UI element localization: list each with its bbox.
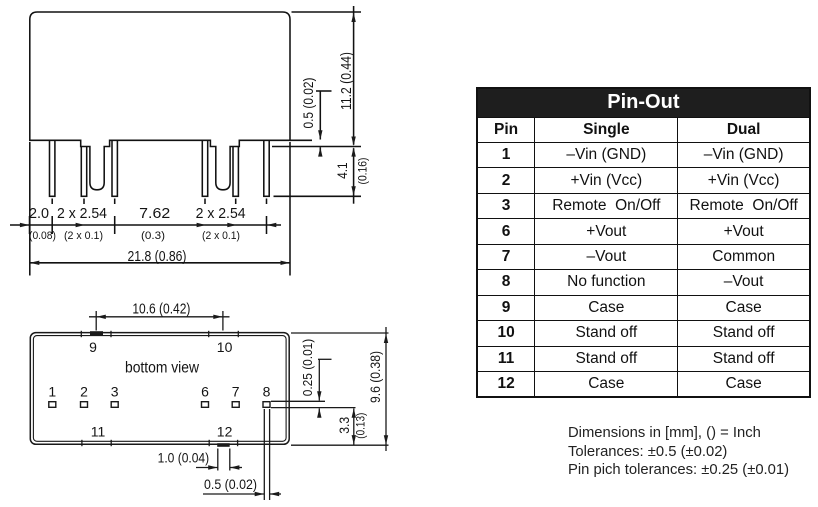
svg-text:11: 11 [91, 424, 106, 440]
pin 8 (side view) [264, 138, 269, 196]
pin 9 stand-off tab (filled) [90, 331, 103, 335]
dimension 0.5 (0.02) leader [316, 90, 332, 92]
extension line: body bottom level (right) [290, 139, 312, 141]
pin8 pad vertical extension lines [263, 409, 265, 500]
svg-text:7: 7 [232, 384, 240, 400]
extension line: body top to right [292, 11, 362, 13]
svg-text:2 x 2.54: 2 x 2.54 [196, 206, 246, 222]
svg-text:(2 x 0.1): (2 x 0.1) [202, 230, 240, 242]
body edge extension lines down [29, 142, 31, 276]
extension dashes below pins [51, 199, 53, 205]
svg-text:10.6 (0.42): 10.6 (0.42) [132, 302, 190, 318]
pin pad 6 [202, 402, 209, 408]
pin pad 7 [232, 402, 239, 408]
arrow at pin6 center [197, 223, 206, 227]
tick pin3 center [114, 216, 116, 234]
pin 7 (side view) [233, 144, 238, 196]
svg-text:12: 12 [217, 424, 233, 440]
svg-text:(0.3): (0.3) [141, 230, 165, 242]
svg-text:0.25 (0.01): 0.25 (0.01) [300, 339, 315, 397]
svg-text:2: 2 [80, 384, 88, 400]
dimension 0.25 leader [318, 358, 332, 360]
pin 12 tab ticks [208, 440, 210, 446]
svg-text:0.5 (0.02): 0.5 (0.02) [204, 476, 257, 492]
Pin-Out table [476, 87, 811, 398]
svg-text:11.2 (0.44): 11.2 (0.44) [339, 52, 355, 110]
pin pad 2 [81, 402, 88, 408]
dimension line 9.6 [385, 327, 387, 451]
arrow down at recess level (11.2 bottom) [351, 137, 355, 146]
svg-text:1.0 (0.04): 1.0 (0.04) [158, 450, 210, 466]
svg-text:6: 6 [201, 384, 209, 400]
svg-text:8: 8 [263, 384, 271, 400]
tick body left [29, 216, 31, 234]
pin 12 stand-off tab (filled) [217, 443, 230, 447]
dimension line 3.3 [353, 408, 355, 444]
chained pin-pitch dimension line [10, 224, 281, 226]
svg-text:bottom view: bottom view [125, 360, 200, 377]
1.0 extension lines [217, 449, 219, 471]
svg-text:2 x 2.54: 2 x 2.54 [57, 206, 107, 222]
svg-text:1: 1 [48, 384, 56, 400]
pin 1 (side view) [50, 138, 55, 196]
svg-text:9: 9 [89, 339, 97, 355]
extension line: body top right (bottom view) [291, 332, 389, 334]
pin pad 1 [49, 402, 56, 408]
svg-text:(0.13): (0.13) [353, 413, 367, 439]
svg-text:(0.16): (0.16) [355, 158, 369, 185]
svg-text:(2 x 0.1): (2 x 0.1) [64, 230, 103, 242]
svg-text:3.3: 3.3 [336, 417, 352, 434]
notes text [568, 424, 789, 480]
arrow at pin2 center [76, 223, 85, 227]
arrow up at body top [351, 13, 355, 22]
pin8 pad horizontal extension lines [271, 400, 325, 402]
bottom view outer outline [30, 333, 289, 445]
svg-text:3: 3 [111, 384, 119, 400]
arrow up at recess level (4.1 top) [351, 147, 355, 156]
bottom view inner outline [33, 336, 286, 442]
pin 2 (side view) [81, 144, 86, 196]
extension line: recess level (right) [272, 146, 361, 148]
arrow at body-left tick [20, 223, 29, 227]
svg-text:10: 10 [217, 339, 233, 355]
svg-text:2.0: 2.0 [29, 206, 49, 222]
pin pad 8 [263, 402, 270, 408]
pin 11 tab ticks [81, 440, 83, 446]
svg-text:(0.08): (0.08) [29, 230, 56, 242]
pin 10 tab ticks [208, 331, 210, 337]
svg-text:9.6 (0.38): 9.6 (0.38) [367, 351, 383, 403]
extension line: body bottom right (bottom view) [291, 444, 389, 446]
extension line: pin bottom level (right) [274, 195, 362, 197]
svg-text:21.8 (0.86): 21.8 (0.86) [128, 249, 187, 265]
dimension line 10.6 [89, 316, 230, 318]
dimension line 21.8 [30, 262, 290, 264]
pin 9 tab ticks [80, 331, 82, 337]
arrow at pin7 center [227, 223, 236, 227]
package body (side view) with recessed bottom and stand-off posts [30, 12, 290, 190]
arrow down at pin bottom (4.1 bottom) [351, 186, 355, 195]
dimension line 11.2 / 4.1 (vertical, right) [353, 6, 355, 145]
tick pin1 center [51, 216, 53, 234]
dimension line 0.5 (two outside segments) [203, 493, 264, 495]
pin 3 (side view) [112, 138, 117, 196]
dimension line 1.0 (two outside segments) [196, 467, 218, 469]
pin pad 3 [111, 402, 118, 408]
arrow left-pointing at pin8 tick [267, 223, 276, 227]
svg-text:7.62: 7.62 [139, 206, 170, 222]
tick pin8 center [266, 216, 268, 234]
pin 6 (side view) [202, 138, 207, 196]
svg-text:4.1: 4.1 [334, 162, 350, 179]
10.6 extension lines [95, 311, 97, 331]
svg-text:0.5 (0.02): 0.5 (0.02) [300, 78, 316, 129]
